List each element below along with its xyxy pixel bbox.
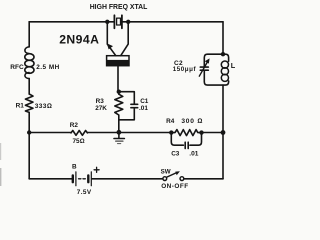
svg-text:L: L: [231, 61, 236, 70]
svg-text:.01: .01: [139, 105, 148, 112]
svg-text:RFC: RFC: [10, 64, 24, 71]
svg-text:7.5V: 7.5V: [77, 189, 92, 196]
svg-text:C3: C3: [171, 150, 180, 157]
svg-text:ON-OFF: ON-OFF: [161, 183, 189, 190]
svg-text:R2: R2: [70, 122, 79, 129]
svg-text:150μμf: 150μμf: [173, 66, 197, 73]
svg-text:.01: .01: [189, 150, 198, 157]
svg-text:B: B: [72, 164, 77, 171]
svg-text:C1: C1: [140, 98, 149, 105]
svg-text:300 Ω: 300 Ω: [181, 118, 203, 125]
svg-text:R4: R4: [166, 118, 175, 125]
svg-text:27K: 27K: [95, 105, 107, 112]
svg-text:2N94A: 2N94A: [59, 32, 99, 46]
svg-text:2.5 MH: 2.5 MH: [36, 64, 60, 71]
svg-text:HIGH FREQ XTAL: HIGH FREQ XTAL: [90, 4, 148, 11]
svg-text:R1: R1: [16, 103, 25, 110]
svg-text:75Ω: 75Ω: [73, 138, 85, 145]
svg-text:333Ω: 333Ω: [35, 103, 52, 110]
svg-text:SW: SW: [161, 169, 171, 176]
